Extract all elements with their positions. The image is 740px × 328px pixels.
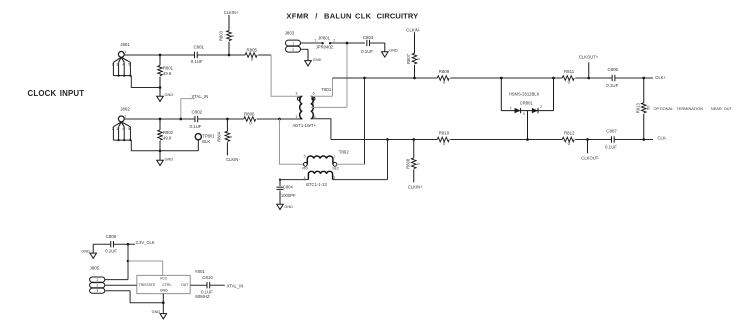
svg-text:1: 1 — [124, 50, 126, 54]
svg-text:4: 4 — [122, 63, 124, 67]
svg-text:1: 1 — [334, 155, 336, 159]
svg-text:GND: GND — [389, 48, 398, 53]
svg-text:T801: T801 — [321, 87, 332, 92]
svg-text:PRI: PRI — [302, 167, 308, 171]
svg-text:VCC: VCC — [160, 277, 168, 281]
svg-text:XTAL_IN: XTAL_IN — [227, 284, 244, 289]
svg-text:60MHZ: 60MHZ — [195, 294, 210, 299]
svg-text:J802: J802 — [120, 107, 130, 112]
svg-text:2: 2 — [112, 63, 114, 67]
svg-text:3: 3 — [116, 63, 118, 67]
svg-text:CLK: CLK — [355, 11, 372, 20]
svg-text:3.3V_CLK: 3.3V_CLK — [136, 240, 155, 245]
svg-text:1: 1 — [296, 115, 298, 119]
svg-text:CR801: CR801 — [520, 101, 534, 106]
svg-text:5: 5 — [304, 155, 306, 159]
svg-text:R810: R810 — [439, 131, 450, 136]
svg-text:CLKIN-: CLKIN- — [226, 157, 240, 162]
svg-text:R804: R804 — [217, 131, 222, 142]
svg-text:3: 3 — [96, 289, 98, 293]
svg-text:CLOCK: CLOCK — [28, 89, 57, 98]
svg-text:1000PF: 1000PF — [281, 193, 296, 198]
svg-text:GND: GND — [165, 92, 174, 97]
svg-text:CLKOUT-: CLKOUT- — [581, 156, 600, 161]
svg-text:0.1UF: 0.1UF — [606, 83, 618, 88]
svg-text:NEAR: NEAR — [711, 106, 722, 111]
svg-text:C802: C802 — [192, 109, 203, 114]
svg-text:1: 1 — [510, 106, 512, 110]
svg-text:GND: GND — [313, 57, 322, 62]
svg-text:3: 3 — [116, 127, 118, 131]
svg-text:R803: R803 — [218, 30, 223, 41]
svg-text:R805: R805 — [247, 48, 258, 53]
svg-text:GND: GND — [81, 248, 90, 253]
svg-text:R812: R812 — [564, 131, 575, 136]
svg-text:CLKIN+: CLKIN+ — [408, 184, 423, 189]
svg-text:5: 5 — [312, 102, 314, 106]
svg-text:R807: R807 — [406, 53, 411, 64]
svg-text:ADT1-1WT+: ADT1-1WT+ — [293, 123, 317, 128]
svg-text:TP801: TP801 — [202, 134, 215, 139]
svg-text:2: 2 — [333, 38, 335, 42]
svg-text:TERMINATION: TERMINATION — [676, 106, 703, 111]
svg-text:C803: C803 — [363, 35, 374, 40]
svg-text:CLKOUT+: CLKOUT+ — [579, 55, 599, 60]
svg-text:OPTIONAL: OPTIONAL — [654, 106, 675, 111]
svg-text:TRISTATE: TRISTATE — [138, 283, 155, 287]
svg-text:J803: J803 — [285, 30, 295, 35]
svg-text:3: 3 — [333, 176, 335, 180]
svg-text:BTC1-1-13: BTC1-1-13 — [306, 182, 327, 187]
svg-text:C807: C807 — [606, 129, 617, 134]
svg-text:JP801: JP801 — [318, 36, 331, 41]
svg-text:49.9: 49.9 — [163, 71, 172, 76]
svg-text:2: 2 — [292, 48, 294, 52]
svg-text:49.9: 49.9 — [163, 135, 172, 140]
svg-text:GND: GND — [160, 289, 168, 293]
svg-text:GND: GND — [284, 204, 293, 209]
svg-text:0.1UF: 0.1UF — [190, 124, 202, 129]
svg-text:1: 1 — [96, 278, 98, 282]
svg-text:GND: GND — [165, 156, 174, 161]
svg-text:0.1UF: 0.1UF — [361, 49, 373, 54]
svg-text:HSMS-2812BLK: HSMS-2812BLK — [509, 91, 540, 96]
svg-text:R802: R802 — [163, 130, 174, 135]
svg-text:4: 4 — [314, 115, 316, 119]
svg-text:0.1UF: 0.1UF — [105, 248, 117, 253]
svg-text:R806: R806 — [244, 112, 255, 117]
svg-text:1: 1 — [292, 42, 294, 46]
svg-text:R813: R813 — [635, 103, 640, 114]
svg-text:3: 3 — [296, 92, 298, 96]
svg-text:0.1UF: 0.1UF — [191, 59, 203, 64]
svg-text:Y801: Y801 — [195, 269, 206, 274]
svg-text:OUT: OUT — [181, 283, 189, 287]
svg-text:C801: C801 — [194, 45, 205, 50]
svg-text:R801: R801 — [163, 66, 174, 71]
svg-text:6: 6 — [313, 92, 315, 96]
svg-text:4: 4 — [304, 176, 306, 180]
svg-text:2: 2 — [540, 105, 542, 109]
svg-text:BALUN: BALUN — [324, 11, 352, 20]
svg-text:OUT: OUT — [724, 106, 733, 111]
svg-text:C810: C810 — [202, 275, 213, 280]
svg-text:2: 2 — [112, 127, 114, 131]
svg-text:4: 4 — [122, 127, 124, 131]
svg-text:0: 0 — [229, 136, 233, 138]
svg-text:T802: T802 — [339, 150, 350, 155]
svg-text:C809: C809 — [106, 234, 117, 239]
svg-text:R809: R809 — [439, 69, 450, 74]
svg-text:R811: R811 — [564, 69, 575, 74]
svg-text:0: 0 — [417, 58, 421, 60]
svg-text:XTAL_IN: XTAL_IN — [192, 94, 209, 99]
svg-text:0: 0 — [231, 35, 235, 37]
svg-text:CLKIN+: CLKIN+ — [224, 10, 239, 15]
svg-text:0.1UF: 0.1UF — [605, 144, 617, 149]
svg-text:J801: J801 — [120, 42, 130, 47]
svg-text:2: 2 — [96, 284, 98, 288]
svg-text:CLK-: CLK- — [658, 135, 668, 140]
svg-text:XFMR: XFMR — [286, 11, 309, 20]
svg-text:1: 1 — [314, 38, 316, 42]
svg-text:R808: R808 — [405, 158, 410, 169]
svg-text:0: 0 — [416, 163, 420, 165]
svg-text:CIRCUITRY: CIRCUITRY — [377, 11, 419, 20]
svg-text:GND: GND — [152, 309, 161, 314]
svg-text:J805: J805 — [90, 265, 100, 270]
svg-text:CLK+: CLK+ — [655, 75, 666, 80]
svg-text:CLKIN-: CLKIN- — [406, 27, 420, 32]
svg-text:5: 5 — [128, 127, 130, 131]
svg-text:C806: C806 — [608, 67, 619, 72]
svg-text:SEC: SEC — [332, 167, 339, 171]
svg-text:5: 5 — [128, 63, 130, 67]
svg-text:C804: C804 — [283, 184, 294, 189]
svg-text:JPR0402: JPR0402 — [316, 45, 334, 50]
svg-text:CTRL: CTRL — [162, 283, 171, 287]
svg-text:1: 1 — [124, 115, 126, 119]
svg-text:3: 3 — [523, 112, 525, 116]
svg-text:INPUT: INPUT — [60, 89, 84, 98]
svg-text:50: 50 — [646, 106, 650, 110]
svg-text:BLK: BLK — [202, 139, 210, 144]
